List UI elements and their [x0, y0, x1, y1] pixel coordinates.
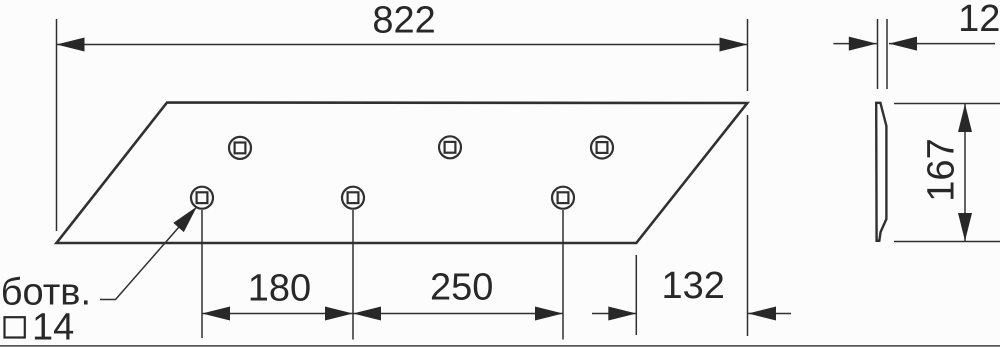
- hole H6 bottom row square 14: [558, 192, 569, 203]
- dim 167 top extension line: [894, 103, 1000, 105]
- hole H4 bottom row square 14: [197, 192, 208, 203]
- hole H5 bottom row square 14: [348, 192, 359, 203]
- svg-text:180: 180: [248, 267, 311, 309]
- dim 132 right tail line: [748, 313, 791, 315]
- arrow 822 left: [57, 38, 85, 52]
- dim 132 left tail line: [592, 313, 636, 315]
- svg-text:14: 14: [32, 307, 74, 347]
- drawing bottom border: [0, 345, 1000, 347]
- hole H4 bottom row circle: [191, 187, 213, 209]
- hole H6 bottom row circle: [552, 187, 574, 209]
- dim 167 bottom extension line: [894, 241, 1000, 243]
- arrow 250 left: [353, 307, 381, 321]
- svg-text:822: 822: [372, 0, 435, 42]
- section profile (side view): [876, 103, 886, 241]
- dim 180 dimension line: [202, 313, 353, 315]
- ext line below hole H4: [201, 210, 203, 338]
- dim 822 left extension line: [56, 19, 58, 231]
- dim 12 left extension line: [877, 19, 879, 89]
- arrow 12 right (points left): [889, 37, 917, 51]
- share plate outline (main view parallelogram): [57, 103, 748, 244]
- hole H2 top row square 14: [445, 142, 456, 153]
- svg-text:12: 12: [958, 0, 1000, 40]
- arrow 822 right: [720, 38, 748, 52]
- arrow 167 down: [958, 213, 972, 241]
- arrow 180 left: [202, 307, 230, 321]
- hole H2 top row circle: [439, 136, 461, 158]
- hole H5 bottom row circle: [342, 187, 364, 209]
- arrow 12 left (points right): [849, 37, 877, 51]
- dim 250 dimension line: [353, 313, 563, 315]
- dim 167 dimension line: [964, 104, 966, 241]
- ext line below hole H5: [352, 210, 354, 340]
- svg-text:132: 132: [662, 265, 725, 307]
- arrow 167 up: [958, 104, 972, 132]
- hole H1 top row square 14: [235, 143, 246, 154]
- hole H1 top row circle: [229, 137, 251, 159]
- dim 822 right extension line: [747, 19, 749, 91]
- square symbol for 14: [5, 317, 25, 337]
- arrow 132 left (points right): [608, 307, 636, 321]
- leader line to hole H4: [100, 211, 193, 300]
- ext line below bottom-right corner: [635, 255, 637, 335]
- svg-text:167: 167: [921, 138, 963, 201]
- leader arrowhead: [173, 207, 197, 233]
- arrow 132 right (points left): [748, 307, 776, 321]
- ext line below hole H6: [562, 210, 564, 340]
- hole H3 top row square 14: [597, 142, 608, 153]
- dim 12 right extension line: [886, 19, 888, 89]
- arrow 250 right: [535, 307, 563, 321]
- svg-text:250: 250: [430, 267, 493, 309]
- dim 12 left tail line: [833, 43, 876, 45]
- dim 822 dimension line: [57, 44, 748, 46]
- ext line below top-right corner: [747, 115, 749, 336]
- arrow 180 right: [325, 307, 353, 321]
- hole H3 top row circle: [591, 137, 613, 159]
- dim 12 right tail line: [889, 43, 995, 45]
